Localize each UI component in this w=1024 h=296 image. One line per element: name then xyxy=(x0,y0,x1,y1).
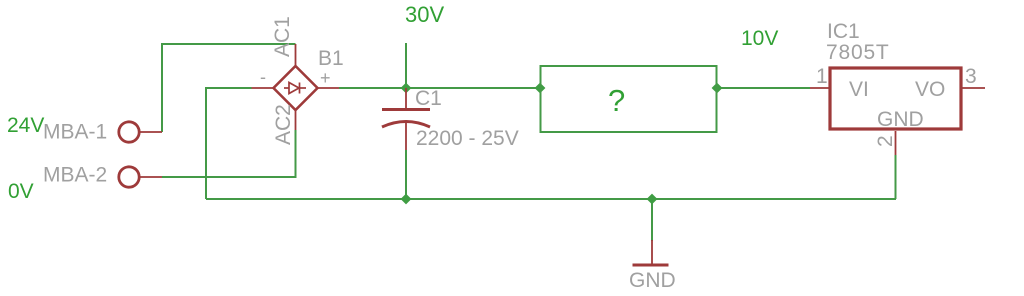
svg-text:2: 2 xyxy=(874,135,897,147)
wire ground rail (bottom) xyxy=(206,198,896,200)
svg-text:3: 3 xyxy=(965,65,977,88)
wire C1 lower lead to ground rail xyxy=(405,150,407,199)
svg-text:GND: GND xyxy=(629,269,676,292)
connector pad MBA-2 xyxy=(119,167,162,187)
junction node ? box right xyxy=(712,83,723,94)
wire IC1 pin 2 to ground rail xyxy=(895,155,897,199)
capacitor C1 xyxy=(382,88,430,150)
voltage regulator IC1 body xyxy=(810,68,985,155)
svg-text:-: - xyxy=(260,67,266,87)
svg-text:AC1: AC1 xyxy=(271,16,294,57)
svg-text:C1: C1 xyxy=(415,87,442,110)
svg-text:+: + xyxy=(320,68,331,88)
wire net 0V: pad MBA-2 over to bridge AC2 xyxy=(162,130,296,177)
wire 30V label stub xyxy=(405,43,407,88)
wire DC minus: bridge left to ground rail xyxy=(206,88,252,199)
junction node 30V/C1 top xyxy=(401,83,412,94)
svg-text:2200 - 25V: 2200 - 25V xyxy=(416,127,519,150)
svg-text:AC2: AC2 xyxy=(272,104,295,145)
unknown block ? xyxy=(541,66,717,132)
ground symbol GND xyxy=(633,240,669,265)
svg-text:0V: 0V xyxy=(8,180,34,203)
junction node C1 bottom / ground rail xyxy=(401,194,412,205)
wire GND symbol stub xyxy=(651,199,653,241)
svg-text:7805T: 7805T xyxy=(826,41,890,64)
svg-text:10V: 10V xyxy=(741,27,778,50)
svg-text:1: 1 xyxy=(816,65,828,88)
junction node ? box left xyxy=(535,83,546,94)
wire net 10V: ? box to IC1 pin 1 xyxy=(717,87,810,89)
svg-text:MBA-1: MBA-1 xyxy=(43,121,107,144)
svg-text:B1: B1 xyxy=(318,47,344,70)
bridge rectifier B1 xyxy=(252,44,340,130)
svg-text:GND: GND xyxy=(877,108,924,131)
svg-text:VI: VI xyxy=(849,78,869,101)
connector pad MBA-1 xyxy=(119,122,162,142)
svg-text:VO: VO xyxy=(915,78,945,101)
wire net 24V: pad MBA-1 up and over to bridge AC1 xyxy=(162,44,296,132)
junction node GND / ground rail xyxy=(647,194,658,205)
svg-text:24V: 24V xyxy=(7,114,44,137)
svg-text:?: ? xyxy=(608,83,625,118)
wire net 30V: bridge plus to ? box xyxy=(339,87,540,89)
svg-text:MBA-2: MBA-2 xyxy=(43,164,107,187)
svg-text:30V: 30V xyxy=(405,2,444,27)
svg-text:IC1: IC1 xyxy=(827,20,860,43)
